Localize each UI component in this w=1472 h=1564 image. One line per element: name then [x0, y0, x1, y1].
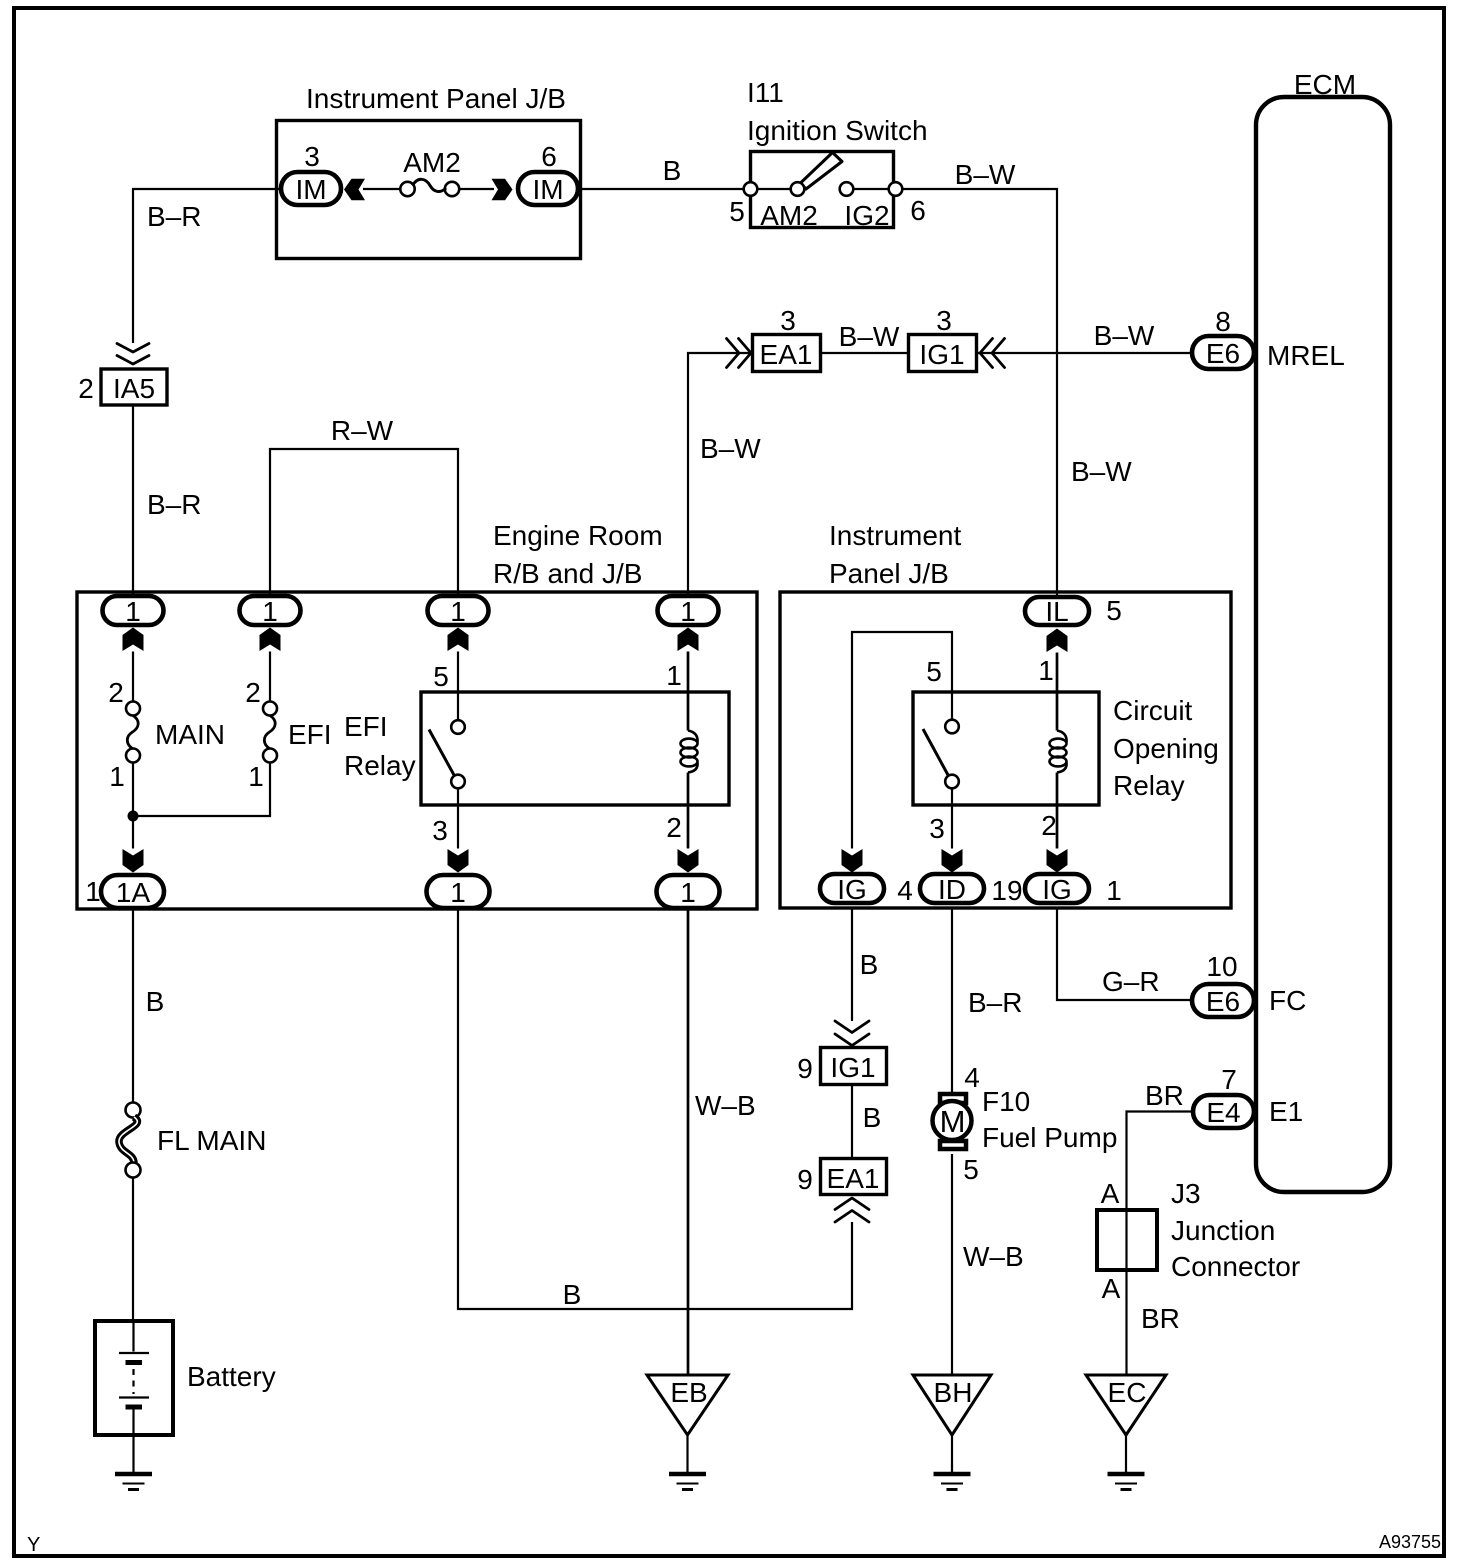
arrow into connector 1: [448, 628, 469, 652]
wire B from 1A to FL MAIN: [132, 908, 134, 1103]
arrow into IM left: [344, 179, 365, 201]
svg-text:W–B: W–B: [695, 1090, 756, 1121]
svg-text:6: 6: [910, 195, 926, 226]
svg-text:4: 4: [897, 875, 913, 906]
fuel pump F10: [933, 1062, 1118, 1185]
relay Circuit Opening Relay: [913, 692, 1219, 805]
wire B from IG(4) down to IG1 junction: [851, 907, 853, 1021]
svg-text:B–W: B–W: [839, 321, 900, 352]
wire B from IM pin6 to ignition switch: [578, 188, 744, 190]
svg-text:W–B: W–B: [963, 1241, 1024, 1272]
ECM: [1256, 69, 1390, 1192]
svg-text:BR: BR: [1141, 1303, 1180, 1334]
junction node: [128, 811, 139, 822]
terminal pin 6: [889, 182, 903, 196]
svg-text:1: 1: [666, 660, 682, 691]
svg-text:5: 5: [963, 1154, 979, 1185]
svg-text:Panel J/B: Panel J/B: [829, 558, 949, 589]
ground point BH: [913, 1375, 991, 1490]
svg-text:5: 5: [433, 661, 449, 692]
connector E6 pin 10 FC: [1192, 951, 1306, 1017]
svg-text:IG1: IG1: [919, 339, 964, 370]
svg-text:3: 3: [304, 141, 320, 172]
wire relay pin 3: [951, 789, 953, 849]
svg-text:E6: E6: [1206, 338, 1240, 369]
svg-text:2: 2: [1041, 810, 1057, 841]
wire B-W from IG1 to ECM E6 MREL: [978, 352, 1190, 354]
splice chevrons out of EA1: [835, 1198, 869, 1222]
wire pin5 to AM2 contact: [756, 188, 792, 190]
svg-text:5: 5: [729, 196, 745, 227]
wire BR from E4 to J3: [1127, 1112, 1192, 1376]
svg-text:I11: I11: [747, 77, 784, 108]
svg-text:A: A: [1101, 1178, 1120, 1209]
svg-text:Relay: Relay: [1113, 770, 1185, 801]
svg-text:Junction: Junction: [1171, 1215, 1275, 1246]
connector 1 (top, relay switch): [428, 596, 489, 627]
svg-text:FC: FC: [1269, 985, 1306, 1016]
svg-text:B–W: B–W: [700, 433, 761, 464]
connector IL pin 5: [1025, 595, 1122, 627]
svg-text:IG: IG: [1042, 874, 1072, 905]
wire relay pin 1 (coil): [1056, 653, 1059, 731]
fusible link FL MAIN: [119, 1103, 266, 1178]
wire B-R from IA5 to Engine Room J/B: [132, 405, 134, 596]
svg-text:BR: BR: [1145, 1080, 1184, 1111]
svg-text:EB: EB: [670, 1377, 707, 1408]
svg-text:EFI: EFI: [344, 711, 388, 742]
arrow into connector ID: [942, 849, 963, 873]
wire FL MAIN to battery: [132, 1178, 134, 1322]
connector 1 (top, relay coil): [658, 596, 719, 627]
svg-text:Fuel Pump: Fuel Pump: [982, 1122, 1117, 1153]
connector ID pin 19: [920, 874, 1023, 906]
splice chevrons into IG1: [835, 1021, 869, 1046]
svg-text:1: 1: [109, 761, 125, 792]
connector 1 (top, MAIN fuse): [103, 596, 164, 627]
svg-text:AM2: AM2: [760, 200, 818, 231]
svg-text:R/B and J/B: R/B and J/B: [493, 558, 642, 589]
svg-text:1A: 1A: [116, 877, 151, 908]
ground (battery): [115, 1474, 152, 1490]
splice chevrons into EA1: [727, 339, 752, 368]
svg-text:1: 1: [248, 761, 264, 792]
contact AM2: [791, 182, 805, 196]
svg-text:1: 1: [85, 876, 101, 907]
svg-text:Instrument: Instrument: [829, 520, 961, 551]
svg-text:6: 6: [541, 141, 557, 172]
svg-text:B–R: B–R: [147, 201, 201, 232]
junction connector J3: [1097, 1178, 1300, 1282]
splice chevrons into IA5: [117, 344, 149, 365]
fuse AM2: [363, 147, 494, 196]
wire B from EA1 to engine room connector: [458, 909, 852, 1309]
wire loop relay pin 5 to IG connector: [852, 632, 952, 849]
svg-text:MAIN: MAIN: [155, 719, 225, 750]
svg-text:A93755: A93755: [1379, 1532, 1441, 1552]
splice chevrons into IG1: [980, 339, 1005, 368]
switch lever: [801, 153, 843, 190]
wire relay pin 1: [687, 652, 690, 731]
svg-text:E4: E4: [1206, 1097, 1240, 1128]
svg-text:Battery: Battery: [187, 1361, 276, 1392]
svg-text:Ignition Switch: Ignition Switch: [747, 115, 928, 146]
relay coil: [681, 731, 698, 773]
connector EA1 pin 9: [797, 1159, 886, 1196]
arrow into connector 1: [448, 849, 469, 873]
arrow into connector 1: [260, 628, 281, 652]
relay coil: [1050, 731, 1067, 773]
svg-text:EA1: EA1: [760, 339, 813, 370]
connector 1 (bottom, relay coil): [657, 875, 720, 908]
fuse MAIN: [108, 652, 225, 793]
svg-text:5: 5: [926, 656, 942, 687]
junction block: Instrument Panel J/B (relay): [780, 520, 1231, 908]
svg-text:BH: BH: [934, 1377, 973, 1408]
svg-text:B: B: [146, 986, 165, 1017]
wire B-R from ID to fuel pump: [951, 907, 953, 1093]
wire relay pin 2: [687, 773, 690, 849]
connector E6 pin 8 MREL: [1192, 306, 1345, 371]
arrow into connector 1: [678, 849, 699, 873]
ignition switch I11: [747, 77, 928, 228]
svg-text:2: 2: [108, 677, 124, 708]
svg-text:B–W: B–W: [1094, 320, 1155, 351]
svg-text:E1: E1: [1269, 1096, 1303, 1127]
connector IA5 pin 2: [78, 369, 167, 405]
svg-text:Y: Y: [27, 1534, 40, 1556]
connector 1A pin 1: [85, 875, 164, 908]
fuse EFI: [245, 652, 331, 793]
relay block: Engine Room R/B and J/B: [77, 520, 757, 909]
svg-text:10: 10: [1206, 951, 1237, 982]
arrow into connector IG (4): [842, 849, 863, 873]
terminal pin 5: [744, 182, 758, 196]
ground point EC: [1086, 1375, 1166, 1490]
svg-text:3: 3: [929, 813, 945, 844]
wire B-W between EA1 and IG1: [822, 352, 907, 354]
svg-text:9: 9: [797, 1053, 813, 1084]
svg-text:3: 3: [936, 305, 952, 336]
svg-text:EFI: EFI: [288, 719, 332, 750]
connector E4 pin 7 E1: [1193, 1064, 1303, 1128]
svg-text:J3: J3: [1171, 1178, 1201, 1209]
svg-text:IM: IM: [532, 174, 563, 205]
wire MAIN fuse to junction: [132, 763, 134, 849]
svg-text:1: 1: [1038, 655, 1054, 686]
svg-text:IG2: IG2: [844, 200, 889, 231]
svg-text:IL: IL: [1045, 596, 1068, 627]
svg-text:Instrument Panel J/B: Instrument Panel J/B: [306, 83, 566, 114]
svg-text:B: B: [860, 949, 879, 980]
connector 1 (bottom, relay switch): [427, 875, 490, 908]
arrow into IM right: [492, 179, 513, 201]
wire B-W from EA1 corner to IG1: [688, 353, 751, 595]
svg-text:7: 7: [1221, 1064, 1237, 1095]
connector IG pin 1: [1025, 874, 1122, 906]
wire relay pin 5: [457, 652, 459, 721]
svg-text:F10: F10: [982, 1086, 1030, 1117]
relay switch contacts: [945, 720, 959, 734]
svg-text:2: 2: [78, 373, 94, 404]
svg-text:8: 8: [1215, 306, 1231, 337]
battery: [95, 1321, 276, 1472]
svg-text:Engine Room: Engine Room: [493, 520, 663, 551]
connector IG pin 4: [820, 874, 913, 906]
svg-text:EC: EC: [1108, 1377, 1147, 1408]
wire relay pin 3: [457, 789, 459, 849]
svg-text:1: 1: [450, 596, 466, 627]
svg-text:B: B: [863, 1102, 882, 1133]
wire W-B from fuel pump to BH: [951, 1154, 953, 1375]
svg-text:5: 5: [1106, 595, 1122, 626]
connector EA1 pin 3: [753, 305, 821, 372]
svg-text:4: 4: [964, 1062, 980, 1093]
svg-text:2: 2: [666, 812, 682, 843]
arrow into connector IL: [1047, 629, 1068, 653]
svg-text:ID: ID: [938, 874, 966, 905]
svg-text:Opening: Opening: [1113, 733, 1219, 764]
svg-text:3: 3: [780, 305, 796, 336]
connector IM pin 6: [518, 141, 578, 205]
svg-text:3: 3: [432, 815, 448, 846]
svg-text:Circuit: Circuit: [1113, 695, 1193, 726]
svg-text:IA5: IA5: [113, 373, 155, 404]
wire IG2 contact to pin6: [852, 188, 890, 190]
svg-text:AM2: AM2: [403, 147, 461, 178]
wire B-R from IM pin3 to IA5: [133, 189, 281, 343]
arrow into connector 1: [678, 628, 699, 652]
wire EFI fuse to junction: [133, 763, 270, 817]
svg-text:B: B: [663, 155, 682, 186]
svg-text:1: 1: [450, 877, 466, 908]
svg-text:IG: IG: [837, 874, 867, 905]
svg-text:E6: E6: [1206, 986, 1240, 1017]
wire W-B from connector 1 to EB: [687, 909, 690, 1375]
arrow into connector 1A: [123, 849, 144, 873]
contact IG2: [840, 182, 854, 196]
wire B between IG1 and EA1: [851, 1086, 853, 1158]
svg-text:EA1: EA1: [827, 1163, 880, 1194]
relay switch blade: [429, 730, 454, 776]
wire relay pin 2: [1056, 773, 1059, 849]
relay switch blade: [923, 729, 948, 775]
svg-text:1: 1: [125, 596, 141, 627]
svg-text:B–R: B–R: [147, 489, 201, 520]
wire R-W loop between connectors: [270, 449, 458, 596]
svg-text:1: 1: [680, 877, 696, 908]
svg-text:B: B: [563, 1279, 582, 1310]
svg-text:Relay: Relay: [344, 750, 416, 781]
svg-text:B–W: B–W: [955, 159, 1016, 190]
svg-text:G–R: G–R: [1102, 966, 1160, 997]
svg-text:1: 1: [680, 596, 696, 627]
svg-text:FL MAIN: FL MAIN: [157, 1125, 266, 1156]
connector IM pin 3: [281, 141, 341, 205]
connector 1 (top, EFI fuse): [240, 596, 301, 627]
svg-text:1: 1: [1106, 875, 1122, 906]
arrow into connector 1: [123, 628, 144, 652]
wire G-R from IG(1) to ECM E6 FC: [1057, 907, 1191, 1000]
svg-text:M: M: [940, 1104, 966, 1139]
svg-text:19: 19: [991, 875, 1022, 906]
wire B-W from ignition switch down to IL: [902, 189, 1057, 595]
svg-text:9: 9: [797, 1164, 813, 1195]
svg-text:2: 2: [245, 677, 261, 708]
svg-text:IM: IM: [295, 174, 326, 205]
svg-text:ECM: ECM: [1294, 69, 1356, 100]
svg-text:B–W: B–W: [1071, 456, 1132, 487]
svg-text:R–W: R–W: [331, 415, 394, 446]
svg-text:Connector: Connector: [1171, 1251, 1300, 1282]
connector IG1 pin 9: [797, 1048, 886, 1085]
svg-text:IG1: IG1: [830, 1052, 875, 1083]
relay switch contacts: [451, 720, 465, 734]
ground point EB: [647, 1375, 728, 1490]
svg-text:1: 1: [262, 596, 278, 627]
svg-text:B–R: B–R: [968, 987, 1022, 1018]
arrow into connector IG (1): [1047, 849, 1068, 873]
connector IG1 pin 3: [909, 305, 977, 372]
svg-text:MREL: MREL: [1267, 340, 1345, 371]
svg-text:A: A: [1102, 1273, 1121, 1304]
relay EFI Relay: [344, 692, 729, 805]
junction block: Instrument Panel J/B (top): [277, 83, 581, 259]
